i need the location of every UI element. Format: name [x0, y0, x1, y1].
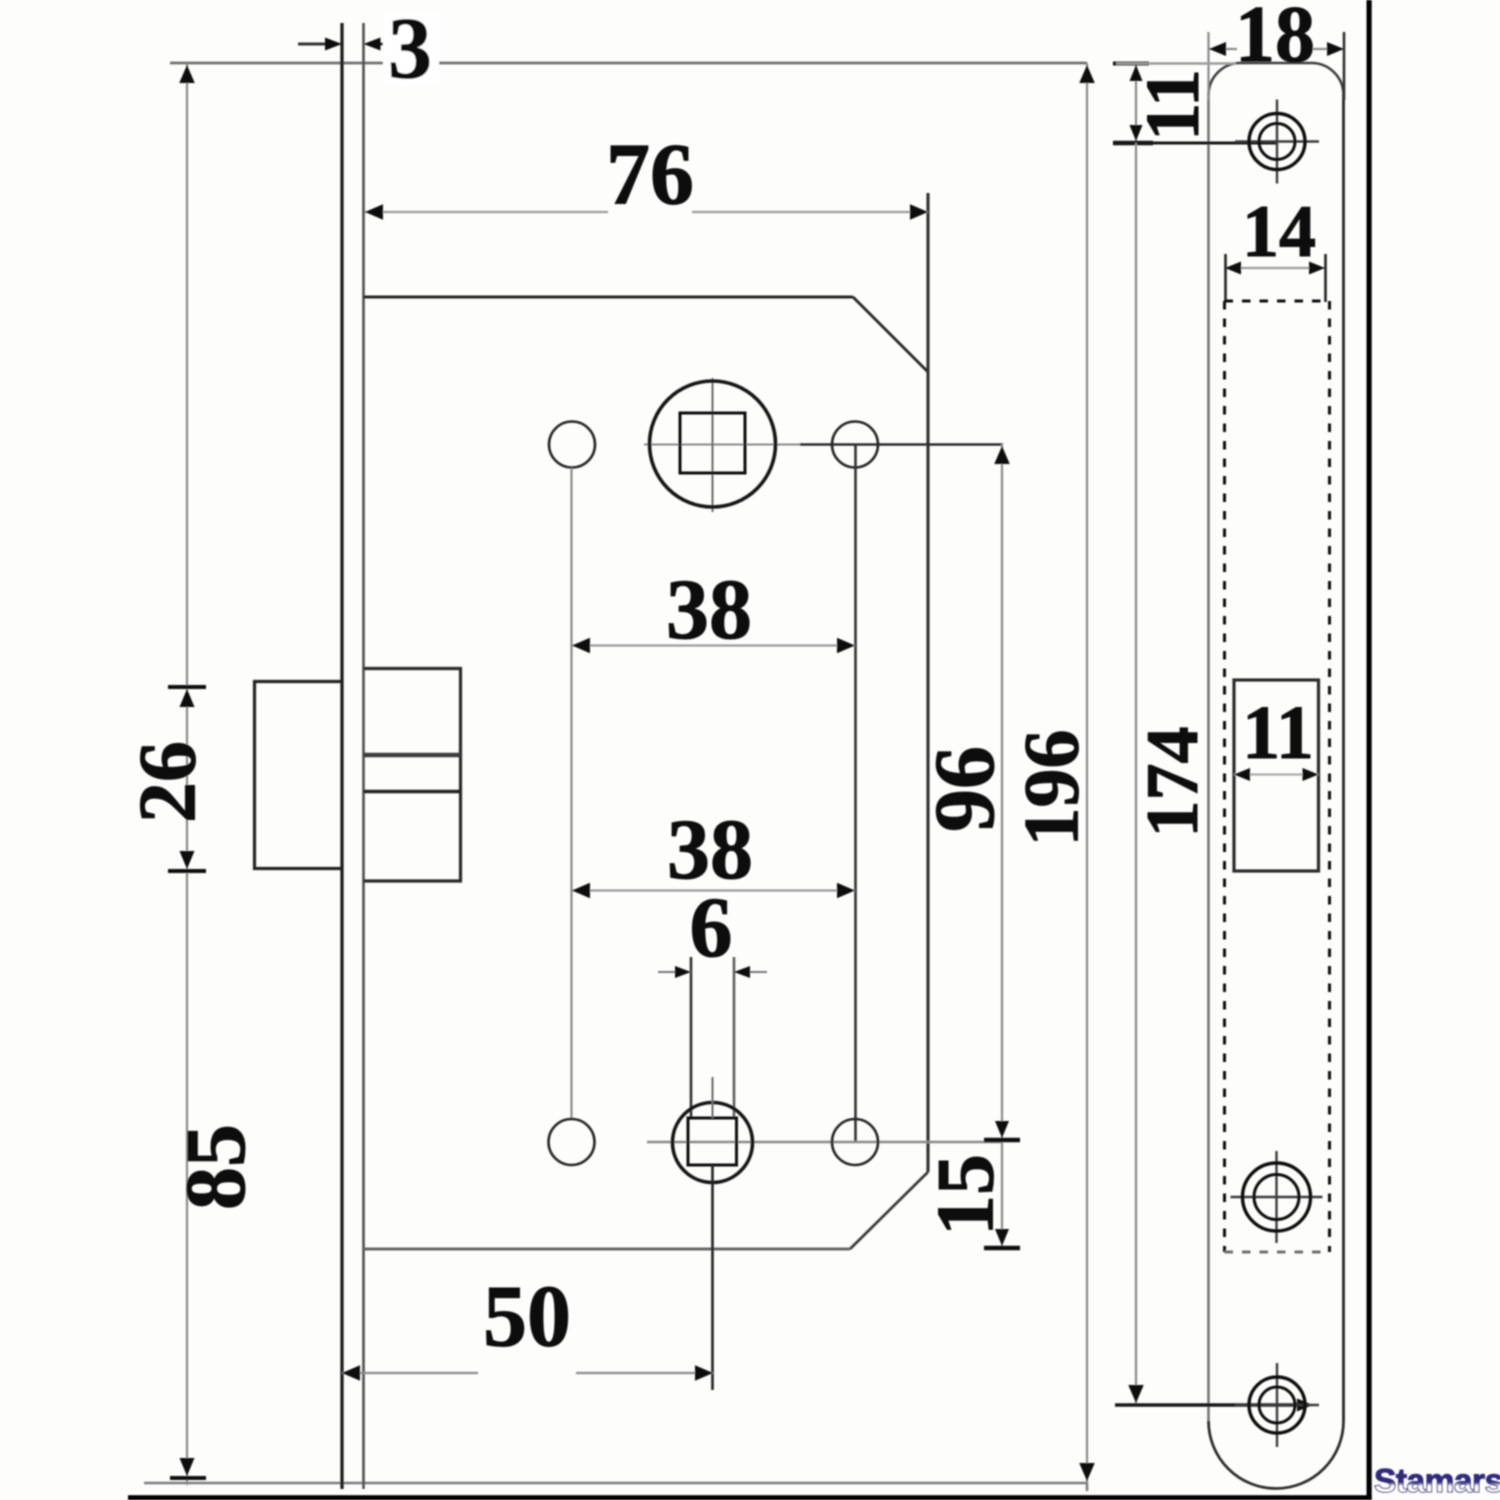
svg-text:14: 14 [1242, 191, 1316, 273]
svg-text:26: 26 [122, 741, 213, 823]
svg-text:85: 85 [167, 1124, 263, 1210]
svg-text:196: 196 [1008, 730, 1095, 847]
svg-text:3: 3 [388, 1, 432, 98]
svg-text:11: 11 [1131, 69, 1215, 141]
svg-text:6: 6 [690, 879, 733, 975]
svg-text:76: 76 [606, 127, 694, 224]
svg-text:Stamars: Stamars [1374, 1463, 1500, 1500]
svg-text:174: 174 [1132, 727, 1214, 838]
svg-text:96: 96 [916, 746, 1012, 832]
svg-text:18: 18 [1235, 0, 1315, 79]
svg-text:15: 15 [920, 1154, 1011, 1236]
svg-text:38: 38 [666, 561, 752, 657]
svg-text:11: 11 [1242, 691, 1314, 775]
svg-text:50: 50 [483, 1269, 571, 1366]
